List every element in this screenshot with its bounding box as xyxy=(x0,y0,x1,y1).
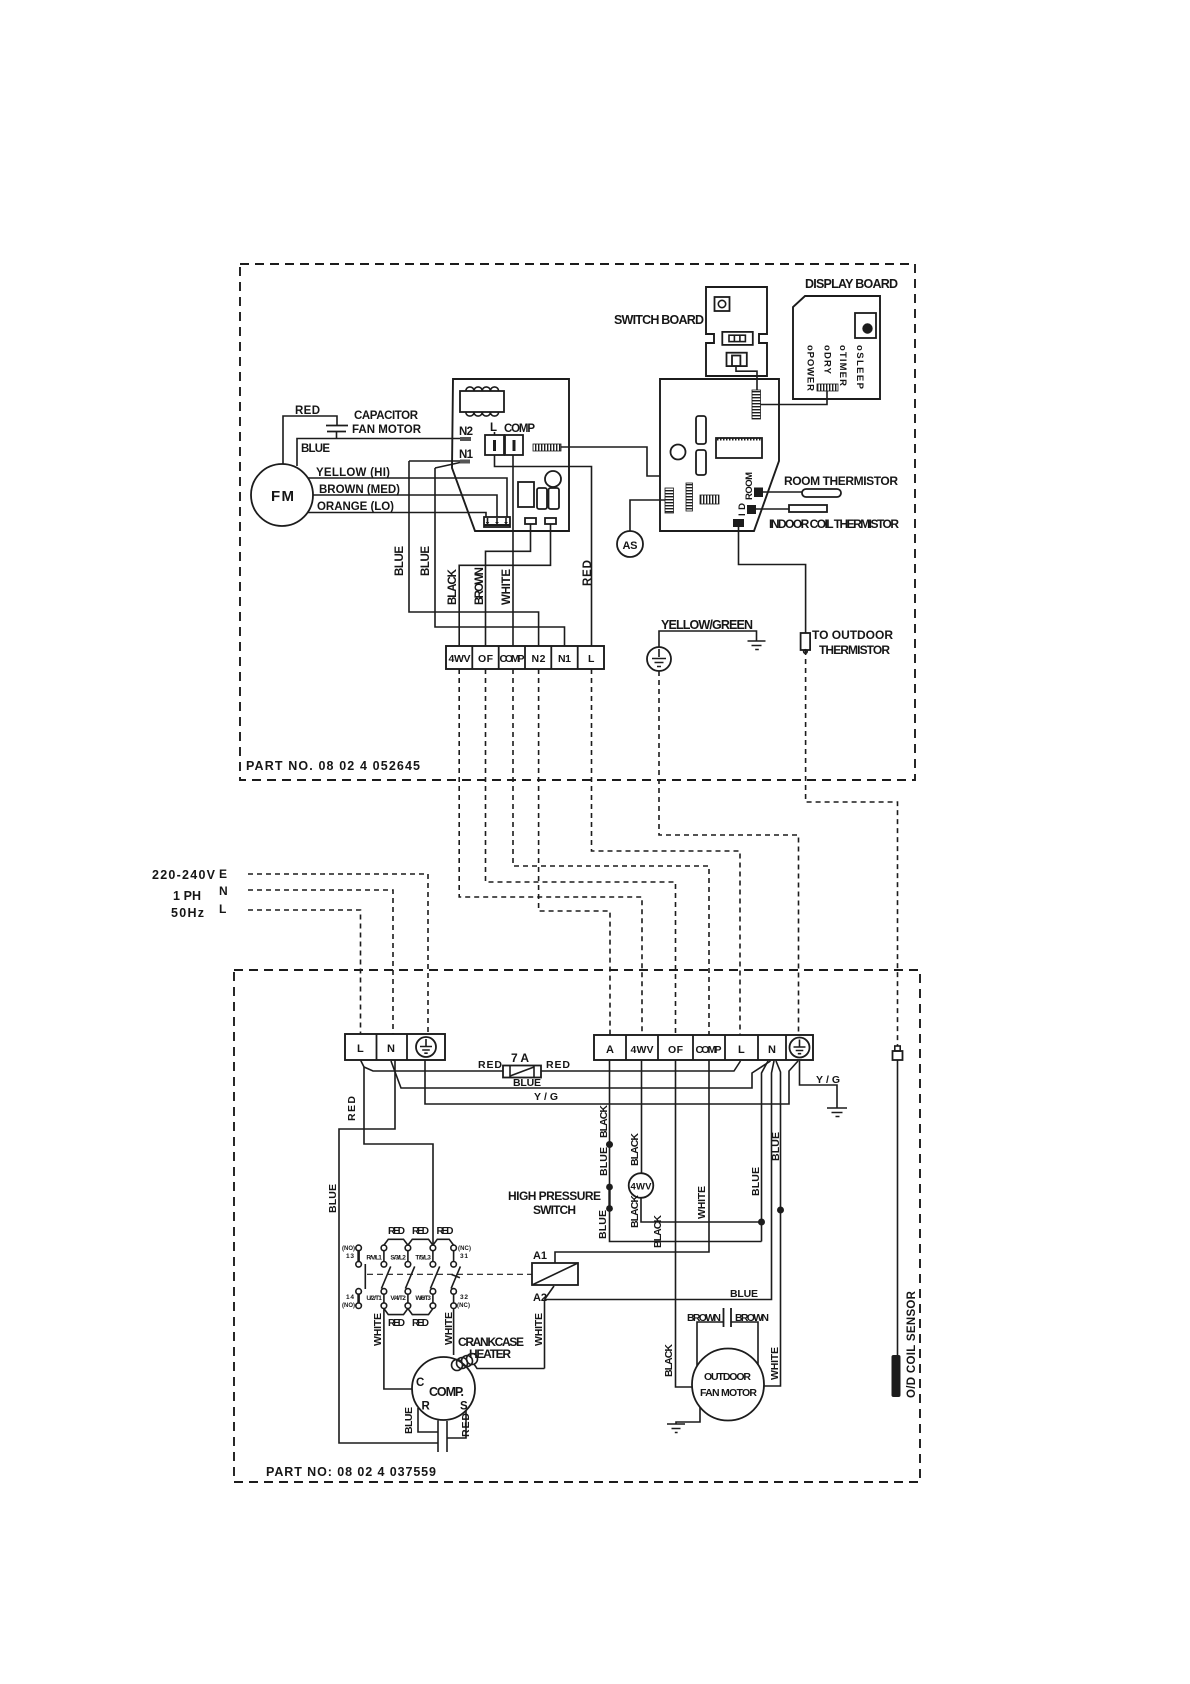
connector CN top on control pcb xyxy=(752,390,761,419)
slide switch on switch board xyxy=(722,332,753,345)
svg-text:4WV: 4WV xyxy=(631,1044,654,1056)
svg-text:R/V/L1: R/V/L1 xyxy=(366,1255,382,1262)
svg-text:V/4/T2: V/4/T2 xyxy=(390,1295,406,1302)
svg-text:BLACK: BLACK xyxy=(663,1344,675,1377)
svg-text:4WV: 4WV xyxy=(631,1182,653,1193)
outdoor unit dashed enclosure box xyxy=(234,970,920,1482)
svg-text:FAN MOTOR: FAN MOTOR xyxy=(700,1387,757,1399)
main control PCB outline xyxy=(660,379,779,531)
wire WHITE COMP to contactor coil A1 xyxy=(555,1060,709,1263)
auto switch AS xyxy=(617,531,643,557)
svg-text:L: L xyxy=(219,902,226,916)
connector display board xyxy=(817,384,838,391)
svg-text:N1: N1 xyxy=(558,653,571,665)
svg-text:BLACK: BLACK xyxy=(652,1215,664,1248)
earth terminal circle outdoor xyxy=(790,1038,810,1058)
wire WHITE A2 to crankcase heater xyxy=(544,1300,546,1369)
svg-text:BLACK: BLACK xyxy=(447,568,459,605)
wire N2 indoor to A outdoor dashed xyxy=(539,669,610,1035)
wire BLUE compressor R xyxy=(418,1408,438,1432)
wire BLACK 4WV terminal to coil xyxy=(641,1060,643,1173)
wire WHITE pole1 to compressor C xyxy=(384,1309,412,1390)
svg-text:BLUE: BLUE xyxy=(730,1288,758,1300)
svg-text:WHITE: WHITE xyxy=(501,569,513,605)
svg-text:WHITE: WHITE xyxy=(443,1312,455,1345)
wire to outdoor thermistor plug xyxy=(739,527,806,633)
wire N to A2 xyxy=(545,1061,775,1300)
svg-text:O/D COIL SENSOR: O/D COIL SENSOR xyxy=(906,1290,918,1398)
svg-text:N1: N1 xyxy=(459,449,474,461)
wire OF indoor to outdoor dashed xyxy=(486,669,676,1035)
svg-text:N: N xyxy=(387,1043,395,1055)
svg-text:DISPLAY BOARD: DISPLAY BOARD xyxy=(805,277,898,291)
wire ORANGE (LO) fan speed xyxy=(308,513,486,518)
svg-text:RED: RED xyxy=(460,1413,472,1437)
wire BROWN pad to terminal OF xyxy=(486,524,531,646)
svg-text:COMP: COMP xyxy=(696,1044,722,1056)
connector CN1 to main pcb xyxy=(533,444,561,451)
wire L indoor to outdoor dashed xyxy=(592,669,741,1035)
compressor cable stubs xyxy=(438,1421,447,1453)
wire N fanout to BLUE drop xyxy=(762,1061,769,1242)
4WV solenoid coil xyxy=(629,1173,654,1198)
svg-text:ROOM THERMISTOR: ROOM THERMISTOR xyxy=(784,474,898,488)
contactor aux contact 13-14 xyxy=(342,1245,361,1309)
terminal strip indoor xyxy=(446,646,604,669)
outdoor fan motor xyxy=(692,1349,764,1421)
pad outdoor thermistor xyxy=(733,519,744,527)
svg-text:BLUE: BLUE xyxy=(327,1184,339,1213)
ground symbol outdoor strip xyxy=(827,1108,847,1117)
wire RED relay L to terminal L xyxy=(495,455,592,646)
fan speed connector bar xyxy=(484,517,510,527)
wire brown cap right to ofm xyxy=(731,1322,758,1365)
wire AS to control pcb xyxy=(630,500,665,531)
svg-text:oTIMER: oTIMER xyxy=(837,345,848,386)
svg-text:BLUE: BLUE xyxy=(597,1210,609,1239)
wire COMP indoor to outdoor dashed xyxy=(513,669,709,1035)
svg-text:SWITCH: SWITCH xyxy=(533,1203,576,1217)
pad 4WV out xyxy=(545,518,556,524)
svg-text:(NC): (NC) xyxy=(457,1303,470,1309)
wire WHITE relay COMP to terminal COMP xyxy=(512,455,514,646)
svg-text:Y/G: Y/G xyxy=(534,1091,558,1103)
room thermistor element xyxy=(802,489,841,497)
svg-text:L: L xyxy=(588,653,595,665)
ground symbol indoor right xyxy=(748,641,766,650)
svg-text:OF: OF xyxy=(478,653,494,665)
svg-text:BLACK: BLACK xyxy=(629,1133,641,1166)
svg-text:BROWN (MED): BROWN (MED) xyxy=(319,484,400,496)
svg-text:OUTDOOR: OUTDOOR xyxy=(704,1371,751,1383)
contactor aux contact 31-32 xyxy=(451,1245,471,1309)
connector CN mid on control pcb xyxy=(686,483,693,511)
wire brown cap left to ofm xyxy=(697,1322,724,1366)
compressor COMP xyxy=(412,1357,475,1420)
pad ID thermistor xyxy=(747,505,756,514)
plug od coil sensor xyxy=(893,1046,903,1060)
svg-text:ROOM: ROOM xyxy=(744,472,755,500)
display board outline xyxy=(793,296,880,399)
LED window on display board xyxy=(855,313,876,338)
wire RED fan motor to capacitor xyxy=(283,416,337,464)
relay K1 L xyxy=(485,422,504,455)
terminal strip outdoor A 4WV OF COMP L N E xyxy=(594,1035,813,1060)
svg-text:WHITE: WHITE xyxy=(696,1186,708,1219)
svg-text:FAN MOTOR: FAN MOTOR xyxy=(352,424,422,436)
wire 4WV return to N xyxy=(641,1198,762,1222)
wire fuse to outdoor L xyxy=(541,1061,741,1071)
wire mains E dashed xyxy=(248,874,428,1034)
svg-text:R: R xyxy=(422,1401,431,1413)
svg-text:BLUE: BLUE xyxy=(750,1167,762,1196)
svg-text:RED: RED xyxy=(346,1096,358,1121)
wire YG mains earth to outdoor earth xyxy=(425,1060,798,1104)
earth terminal circle mains xyxy=(416,1037,436,1057)
svg-text:PART NO. 08 02 4 052645: PART NO. 08 02 4 052645 xyxy=(246,759,420,773)
svg-text:220-240V: 220-240V xyxy=(152,868,216,882)
wire WHITE aux32 to crankcase heater xyxy=(453,1309,455,1356)
wire od coil sensor xyxy=(897,1060,899,1355)
svg-text:1 PH: 1 PH xyxy=(173,889,201,903)
plug outdoor thermistor xyxy=(801,633,811,653)
wire BROWN (MED) fan speed xyxy=(313,495,497,517)
svg-text:BLUE: BLUE xyxy=(598,1147,610,1176)
svg-text:BLUE: BLUE xyxy=(513,1077,541,1089)
wire A2 junction xyxy=(545,1286,555,1300)
earth terminal circle indoor xyxy=(647,647,671,671)
jumper block on switch board xyxy=(727,353,747,366)
svg-text:SWITCH BOARD: SWITCH BOARD xyxy=(614,313,704,327)
svg-text:N: N xyxy=(768,1044,776,1056)
svg-text:W/6/T3: W/6/T3 xyxy=(415,1295,431,1302)
svg-text:RED: RED xyxy=(295,405,320,417)
svg-text:YELLOW/GREEN: YELLOW/GREEN xyxy=(661,618,753,632)
pad ROOM thermistor xyxy=(754,488,763,498)
indoor control PCB outline xyxy=(452,379,569,531)
pad COMP out xyxy=(525,518,536,524)
svg-text:RED: RED xyxy=(546,1059,570,1071)
junction dot ofm wire xyxy=(777,1207,784,1214)
wire N1 diagonal to blue drop 2 xyxy=(435,463,460,469)
fuse 7A xyxy=(503,1051,541,1078)
svg-text:32: 32 xyxy=(460,1294,468,1301)
node N2 pad xyxy=(459,426,473,441)
svg-text:(NO): (NO) xyxy=(342,1246,355,1252)
svg-text:WHITE: WHITE xyxy=(533,1313,545,1346)
wire BLACK A to high pressure switch xyxy=(609,1060,611,1185)
svg-text:FM: FM xyxy=(271,488,294,505)
svg-text:COMP: COMP xyxy=(504,423,535,435)
svg-text:oPOWER: oPOWER xyxy=(805,345,816,391)
wire BLUE 2 to terminal N1 xyxy=(435,468,565,646)
switch board outline xyxy=(706,287,767,376)
capacitor outdoor fan motor xyxy=(724,1308,732,1327)
svg-text:oSLEEP: oSLEEP xyxy=(854,345,865,390)
wire RED L to contactor xyxy=(364,1067,433,1245)
svg-text:14: 14 xyxy=(346,1294,354,1301)
svg-text:31: 31 xyxy=(460,1253,468,1260)
wire BLACK OF to outdoor fan motor xyxy=(676,1060,693,1387)
indoor coil thermistor element xyxy=(789,505,827,512)
svg-text:oDRY: oDRY xyxy=(822,345,833,375)
wire display board to control pcb xyxy=(761,391,828,405)
svg-text:4WV: 4WV xyxy=(449,653,471,665)
svg-text:BLACK: BLACK xyxy=(598,1105,610,1138)
svg-text:C: C xyxy=(416,1377,424,1389)
component elco 2 on pcb1 xyxy=(549,488,560,509)
contactor KM1 main poles xyxy=(366,1245,439,1308)
svg-text:L: L xyxy=(738,1044,745,1056)
svg-text:OF: OF xyxy=(668,1044,684,1056)
svg-text:S: S xyxy=(460,1401,468,1413)
wire earth indoor to outdoor dashed xyxy=(659,671,799,1035)
IC block on control pcb xyxy=(716,438,762,458)
wire outdoor thermistor dashed xyxy=(806,650,898,1046)
svg-text:RED: RED xyxy=(478,1059,502,1071)
svg-text:THERMISTOR: THERMISTOR xyxy=(819,643,890,657)
svg-text:BLUE: BLUE xyxy=(394,546,406,576)
svg-text:ID: ID xyxy=(737,503,748,516)
svg-text:E: E xyxy=(219,867,227,881)
svg-text:WHITE: WHITE xyxy=(372,1313,384,1346)
component rrect 2 on control pcb xyxy=(696,450,706,475)
contactor coil A1 A2 xyxy=(532,1250,578,1304)
svg-text:N2: N2 xyxy=(532,653,546,665)
svg-text:RED: RED xyxy=(412,1226,429,1237)
wire RED compressor S xyxy=(447,1411,466,1438)
svg-text:BLUE: BLUE xyxy=(420,546,432,576)
svg-text:A1: A1 xyxy=(533,1250,547,1262)
svg-text:S/3/L2: S/3/L2 xyxy=(390,1255,406,1262)
junction dot 4WV return xyxy=(758,1219,765,1226)
svg-text:RED: RED xyxy=(388,1226,405,1237)
component capacitor block on pcb1 xyxy=(518,482,534,507)
relay K2 COMP xyxy=(504,423,535,455)
svg-text:RED: RED xyxy=(582,560,594,586)
component circle on pcb1 xyxy=(545,471,561,487)
svg-text:HIGH PRESSURE: HIGH PRESSURE xyxy=(508,1189,601,1203)
svg-text:ORANGE (LO): ORANGE (LO) xyxy=(317,501,394,513)
svg-text:BLUE: BLUE xyxy=(770,1132,782,1161)
svg-text:50Hz: 50Hz xyxy=(171,906,204,920)
svg-text:CAPACITOR: CAPACITOR xyxy=(354,410,419,422)
wire heater to A2 junction xyxy=(474,1364,545,1369)
contactor actuator dashed link xyxy=(365,1264,532,1289)
wire BLUE 1 to terminal N2 xyxy=(409,461,539,646)
svg-text:Y/G: Y/G xyxy=(816,1074,840,1086)
component elco 1 on pcb1 xyxy=(537,488,547,509)
crankcase heater coil xyxy=(452,1354,478,1371)
component rrect 1 on control pcb xyxy=(696,416,706,444)
svg-text:TO OUTDOOR: TO OUTDOOR xyxy=(812,628,893,642)
wire YELLOW (HI) fan speed xyxy=(308,478,507,517)
wire N to outdoor fan motor xyxy=(764,1061,781,1386)
od coil sensor element xyxy=(892,1355,901,1397)
svg-text:PART NO: 08 02 4 037559: PART NO: 08 02 4 037559 xyxy=(266,1465,436,1479)
jumper RED top bridges xyxy=(384,1226,454,1245)
wire BLUE mains N to outdoor N xyxy=(391,1061,771,1088)
node N1 pad xyxy=(459,449,474,464)
wire yellow green xyxy=(659,631,757,647)
svg-text:7A: 7A xyxy=(511,1051,529,1065)
wire indoor coil thermistor xyxy=(756,508,789,510)
wire L mains to fuse xyxy=(361,1060,504,1071)
svg-text:A: A xyxy=(606,1044,614,1056)
svg-text:RED: RED xyxy=(437,1226,454,1237)
svg-text:BLUE: BLUE xyxy=(403,1407,415,1434)
svg-text:WHITE: WHITE xyxy=(769,1347,781,1380)
wire mains L dashed xyxy=(248,910,361,1034)
svg-text:INDOOR COIL THERMISTOR: INDOOR COIL THERMISTOR xyxy=(769,517,899,531)
svg-text:BROWN: BROWN xyxy=(474,567,486,605)
wire earth outdoor to ground xyxy=(800,1061,838,1108)
svg-text:L: L xyxy=(357,1043,364,1055)
transformer T1 xyxy=(460,387,504,416)
svg-text:BLUE: BLUE xyxy=(301,443,330,455)
terminal strip mains L N E xyxy=(345,1034,445,1060)
svg-text:RED: RED xyxy=(388,1318,405,1329)
wire switch board to control pcb xyxy=(736,366,757,390)
ground symbol ofm xyxy=(667,1424,685,1433)
svg-text:(NC): (NC) xyxy=(458,1246,471,1252)
connector CN small on control pcb xyxy=(700,495,719,504)
svg-text:N: N xyxy=(219,884,228,898)
wire mains N dashed xyxy=(248,890,393,1034)
wire CN1 to control pcb xyxy=(561,447,660,476)
svg-text:(NO): (NO) xyxy=(342,1303,355,1309)
indoor unit dashed enclosure box xyxy=(240,264,915,780)
svg-text:L: L xyxy=(490,422,497,434)
svg-text:N2: N2 xyxy=(459,426,473,438)
jumper RED bottom bridges xyxy=(384,1309,433,1330)
junction dot A wire xyxy=(606,1141,613,1148)
high pressure switch xyxy=(606,1184,613,1212)
svg-text:T/5/L3: T/5/L3 xyxy=(415,1255,431,1262)
svg-text:BLACK: BLACK xyxy=(629,1195,641,1228)
svg-text:13: 13 xyxy=(346,1253,354,1260)
wire 4WV indoor to outdoor dashed xyxy=(459,669,642,1035)
svg-text:COMP.: COMP. xyxy=(429,1385,464,1399)
svg-text:YELLOW (HI): YELLOW (HI) xyxy=(316,467,390,479)
push button on switch board xyxy=(715,297,730,311)
wire BLUE fan motor to N2 xyxy=(297,439,460,467)
svg-text:AS: AS xyxy=(623,540,638,552)
component circle on control pcb xyxy=(671,445,686,460)
capacitor fan motor xyxy=(326,426,348,439)
connector CN left on control pcb xyxy=(665,488,674,513)
wire BLUE N to compressor xyxy=(339,1060,438,1443)
wire BLACK pad to terminal 4WV xyxy=(459,524,550,646)
wire BLUE hp switch to N wire xyxy=(610,1209,762,1242)
fan motor FM xyxy=(251,464,313,526)
svg-text:U/2/T1: U/2/T1 xyxy=(366,1295,382,1302)
wire room thermistor xyxy=(763,491,802,493)
svg-text:COMP: COMP xyxy=(500,653,525,665)
wire N1 to blue drop 1 xyxy=(409,460,460,462)
wire ofm ground xyxy=(676,1407,700,1424)
svg-text:RED: RED xyxy=(412,1318,429,1329)
